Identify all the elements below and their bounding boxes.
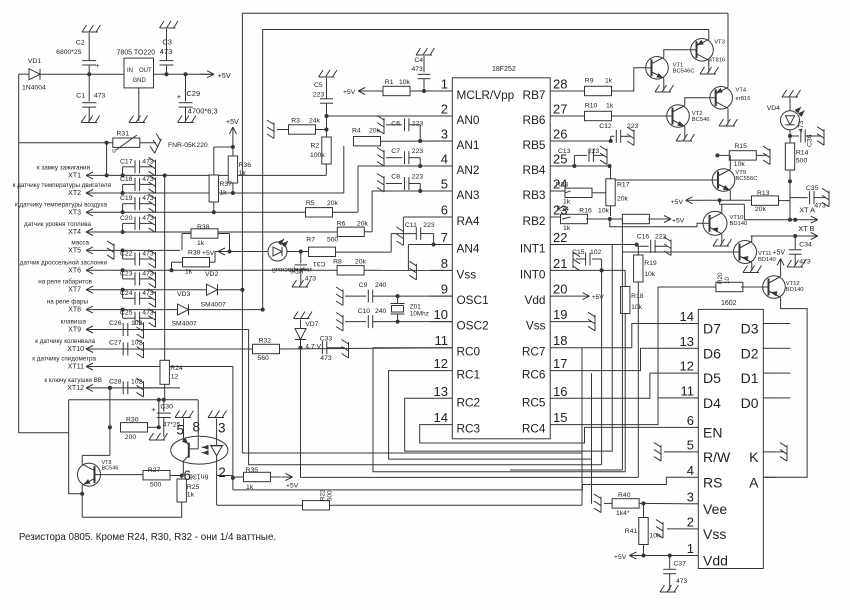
capacitor C28 [109,378,143,394]
wire XT12 node down [108,388,112,456]
svg-text:XT1: XT1 [68,172,81,179]
node XT8 label [47,299,89,314]
terminal XT8 arrow [86,306,103,313]
+5V arrow at VD6 row [202,248,229,257]
svg-text:223: 223 [412,174,424,181]
wire RA4 row [403,217,429,230]
terminal XT10 arrow [86,346,103,353]
LCD D0 stub [776,397,790,399]
wire XT11 row [103,366,115,368]
svg-text:1k: 1k [220,190,228,197]
transistor VT1 [646,57,695,80]
wire R31 to ground [139,142,156,144]
wire R38 right to +5V node [218,234,230,252]
svg-text:223: 223 [412,148,424,155]
svg-text:XT6: XT6 [68,267,81,274]
wire +5V node to VD6 [228,250,269,254]
+5V arrow at R16 [664,216,685,225]
wire R34 node to VT10 base [610,219,703,227]
svg-text:20k: 20k [617,196,629,203]
capacitor C20 [120,215,154,230]
svg-text:K: K [749,449,759,465]
ground at 7805 GND pin [129,88,148,123]
diode VD3 [177,284,226,308]
wire VT2 emitter to ground [684,127,686,140]
wire INT0 riser to bundle [601,270,603,464]
+5V arrow at R1 [343,88,383,97]
svg-text:R13: R13 [757,190,770,197]
pin 25 RB4 [523,152,571,178]
svg-text:RS: RS [703,474,722,490]
svg-text:R7: R7 [306,237,315,244]
svg-text:C29: C29 [186,89,200,98]
wire VD6 to R7 node [287,250,310,254]
terminal XT2 arrow [86,190,103,197]
resistor R33 [556,182,606,206]
terminal XT A arrow [799,206,818,224]
svg-text:240: 240 [375,308,387,315]
svg-text:5: 5 [687,437,694,452]
svg-text:20k: 20k [327,200,339,207]
wire R10 to VT2 base [612,115,668,117]
wire XT7 row to VD3 [180,289,207,291]
svg-text:200: 200 [125,434,137,441]
wire VT9 collector [717,155,730,169]
wire R38 left [182,234,191,251]
label VD2 [205,271,218,278]
svg-text:R32: R32 [259,338,272,345]
wire opto pin8 drop [197,400,199,437]
node XT12 label [44,377,102,392]
svg-text:XT11: XT11 [68,364,84,371]
LED VD6 [268,239,288,261]
pin 1 MCLR/Vpp [430,77,515,103]
capacitor C24 [120,290,154,305]
wire bundle link y470 [510,469,622,471]
resistor R8 [333,259,366,276]
svg-text:XT3: XT3 [68,209,81,216]
ground at LCD K [780,443,787,462]
svg-text:C24: C24 [120,290,133,297]
svg-text:R31: R31 [117,130,130,137]
svg-text:473: 473 [412,66,424,73]
transistor VT10 [703,211,747,235]
svg-text:C19: C19 [120,195,133,202]
svg-text:масса: масса [71,239,89,246]
border wire inner loop [263,30,709,310]
svg-text:2: 2 [441,102,448,117]
svg-text:R36: R36 [239,162,252,169]
wire C25 branch [121,308,135,319]
svg-text:R15: R15 [734,143,747,150]
svg-text:R18: R18 [631,293,644,300]
svg-text:RB3: RB3 [523,188,546,202]
optocoupler pin 5 [176,419,184,442]
svg-text:RC3: RC3 [457,422,481,436]
wire RC5 to D5 [571,373,685,398]
svg-text:FNR-05K220: FNR-05K220 [168,142,208,149]
optocoupler pin 6 [183,461,191,483]
svg-text:6800*25: 6800*25 [56,49,82,56]
ground at R31 [148,134,208,154]
svg-text:XT4: XT4 [68,229,81,236]
LCD pin K [749,449,776,465]
wire C23 branch [121,268,135,279]
svg-text:на реле габаритов: на реле габаритов [38,278,92,286]
wire VT11 base feed [622,251,733,253]
svg-text:20k: 20k [355,259,367,266]
svg-text:6n136: 6n136 [189,473,209,480]
LCD pin 3 Vee [684,489,727,517]
svg-text:26: 26 [553,127,567,142]
wire XT4 row [103,231,181,233]
svg-text:R22: R22 [320,489,327,501]
wire riser x582 [582,348,592,505]
svg-text:AN4: AN4 [457,242,480,256]
wire R36 to XT2 row [232,183,234,193]
svg-text:500: 500 [327,237,339,244]
wire C17 to ground [140,166,152,168]
svg-text:C9: C9 [359,282,368,289]
svg-text:XT A: XT A [799,206,815,215]
svg-text:4: 4 [687,463,694,478]
capacitor C37 [663,556,687,591]
ground at C18 [149,175,156,194]
svg-text:+5V: +5V [592,294,605,301]
pin 11 RC0 [430,333,481,359]
svg-text:AN1: AN1 [457,138,480,152]
node XT6 label [20,258,108,274]
pin 5 AN3 [430,177,480,203]
svg-text:R2: R2 [311,143,320,150]
zener diode VD7 [295,320,322,351]
svg-text:к ключу катушки ВВ: к ключу катушки ВВ [44,377,102,384]
svg-text:R14: R14 [796,150,809,157]
resistor R10 [585,103,614,121]
ground at C33 [342,340,349,359]
ground at C24 [149,289,156,308]
node XT9 label [61,319,87,334]
wire C27 to ground [128,348,140,350]
svg-text:R3: R3 [291,118,300,125]
svg-text:VT3: VT3 [714,40,725,46]
svg-text:+5V: +5V [226,119,239,126]
svg-text:XT2: XT2 [68,190,81,197]
pin 10 OSC2 [430,307,489,333]
svg-text:MCLR/Vpp: MCLR/Vpp [457,88,515,102]
svg-text:BD140: BD140 [758,257,776,263]
wire VD1 to 7805 IN [40,72,124,76]
optocoupler inner transistor [182,437,198,461]
svg-text:клавиша: клавиша [61,319,87,326]
transistor VT3 [691,39,725,64]
svg-text:3: 3 [218,421,226,436]
node XT11 label [32,356,96,371]
ground below C31 [292,280,311,287]
svg-text:VD4: VD4 [767,105,780,112]
svg-text:AN0: AN0 [457,113,480,127]
wire bundle link y453 [242,452,582,454]
capacitor C17 [120,158,154,173]
LED VD4 [767,98,805,130]
node XT1 label [37,164,90,179]
resistor R25 [177,476,199,503]
wire C23 to ground [140,278,152,280]
svg-text:D1: D1 [741,370,759,386]
svg-text:1: 1 [441,77,448,92]
wire RC4 to D4 [571,398,685,425]
svg-text:RB7: RB7 [523,88,546,102]
svg-text:RB2: RB2 [523,214,546,228]
ground at opto pin3 [208,411,227,418]
wire C22 to ground [140,258,152,260]
wire C18 to ground [140,183,152,185]
svg-text:RC2: RC2 [457,395,481,409]
svg-text:7805 TO220: 7805 TO220 [117,50,156,57]
svg-text:473: 473 [160,47,173,56]
svg-text:R8: R8 [333,259,342,266]
svg-text:IN: IN [127,68,133,74]
svg-text:D2: D2 [741,345,759,361]
wire INT0 row [571,268,626,272]
svg-text:C6: C6 [391,121,400,128]
capacitor C35 [790,185,826,210]
wire XT5 row [103,249,181,251]
resistor R6 [337,221,369,237]
svg-text:11: 11 [435,333,449,348]
node XT5 label [68,239,89,254]
svg-text:R30: R30 [126,417,139,424]
terminal XT7 arrow [86,286,103,293]
svg-text:100k: 100k [310,152,325,159]
LCD pin 13 D6 [680,334,722,362]
wire RS/W ground [664,451,684,453]
svg-text:XT8: XT8 [68,307,81,314]
ground at LCD Vss [656,520,663,539]
wire VT10 emitter to +5V [720,200,722,212]
pin 15 RC4 [522,410,571,436]
ground at C19 [149,194,156,213]
resistor R22 [303,489,334,510]
border wire outer loop [242,13,728,453]
wire RC2 loop [405,245,613,452]
svg-text:C30: C30 [160,404,173,411]
svg-text:R38: R38 [197,224,210,231]
capacitor C18 [120,176,154,191]
svg-text:R1: R1 [385,79,394,86]
wire bundle link y477 [301,476,639,478]
svg-text:INT0: INT0 [520,267,546,281]
svg-text:R25: R25 [187,484,200,491]
terminal XT B arrow [798,224,818,240]
LCD pin 1 Vdd [684,541,728,569]
svg-text:102: 102 [590,249,602,256]
svg-text:C26: C26 [109,320,122,327]
LCD pin D0 [741,395,777,411]
svg-text:Vss: Vss [526,319,546,333]
svg-text:102: 102 [131,320,143,327]
capacitor C23 [120,270,154,285]
svg-text:+5V: +5V [218,71,231,80]
svg-text:473: 473 [320,355,332,362]
wire R37 to XT3 row [213,202,215,213]
optocoupler pin 3 [217,419,226,439]
ground at C10 [336,313,343,332]
wire C22 branch [121,248,135,259]
wire R22 line [217,504,582,506]
capacitor C19 [120,195,154,210]
svg-text:13: 13 [434,384,448,399]
svg-text:4700*6,3: 4700*6,3 [188,107,218,116]
svg-text:INT1: INT1 [520,242,546,256]
svg-text:R37: R37 [220,181,233,188]
crystal Z01 [391,296,429,322]
svg-text:RC0: RC0 [457,345,481,359]
resistor R3 [289,118,321,135]
terminal XT6 arrow [86,267,103,274]
svg-text:C1: C1 [76,93,85,100]
LCD pin D2 [741,345,777,361]
svg-text:2: 2 [687,514,694,529]
wire VT2 collector to VT4 base [685,98,710,106]
transistor VT11 [734,241,776,264]
capacitor C31 [295,252,326,286]
wire RC3 to EN [420,425,685,443]
svg-text:1602: 1602 [721,300,737,307]
wire C19 branch [121,204,135,215]
ground at pin8 Vss [409,261,416,280]
capacitor C22 [120,251,154,266]
capacitor C1 [76,74,105,121]
capacitor C16 [637,234,668,253]
wire R5 right to AN2 riser [333,211,359,213]
svg-text:датчик уровня топлива: датчик уровня топлива [24,221,91,228]
svg-text:5: 5 [176,423,184,438]
svg-text:C2: C2 [76,40,85,47]
LCD display 1602 body [698,300,763,569]
svg-text:RC4: RC4 [522,422,546,436]
svg-text:1k: 1k [563,199,571,206]
wire XT9 row [103,329,181,331]
svg-text:C31: C31 [313,260,326,267]
resistor R40 [612,492,639,517]
resistor R35 [233,467,281,491]
svg-text:SM4007: SM4007 [172,321,198,328]
optocoupler pin 8 [192,420,200,435]
resistor R7 [306,237,338,257]
resistor R1 [383,79,411,96]
svg-text:10: 10 [724,276,731,284]
wire XT8 row to VD5 [177,309,179,311]
node XT10 label [35,338,95,353]
wire VT9 emitter to +5V line [718,191,731,203]
svg-text:10Mhz: 10Mhz [410,311,429,318]
svg-text:RC6: RC6 [522,368,546,382]
resistor R13 [752,190,779,213]
wire C20 branch [121,223,135,234]
svg-text:Z01: Z01 [410,304,421,311]
wire VD7 node riser [300,348,302,478]
svg-text:VD7: VD7 [305,321,318,328]
svg-text:10k: 10k [399,79,411,86]
LCD K to ground [776,451,784,453]
wire Vss to ground [667,528,684,530]
LCD D1 stub [776,372,790,374]
svg-text:8: 8 [441,256,448,271]
svg-text:R/W: R/W [703,449,731,465]
resistor R4 [352,128,381,146]
pin 8 Vss [430,256,477,282]
svg-text:10: 10 [434,307,448,322]
capacitor C9 [345,282,452,303]
svg-text:BD140: BD140 [730,221,748,227]
wire Vss pin19 to ground [571,321,593,323]
capacitor C8 [386,174,423,194]
wire AN0 node [325,103,453,138]
svg-text:500: 500 [327,490,334,501]
wire AN2 row [358,166,452,212]
LCD pin 14 D7 [680,309,722,337]
wire INT1 row [571,243,639,247]
transistor VT4 [710,87,751,110]
pin 6 RA4 [430,203,480,229]
wire RB7 to R9 [571,90,585,92]
wire R32 to RC0 row [280,346,453,350]
capacitor C29 electrolytic [177,74,218,121]
svg-text:20: 20 [553,282,567,297]
ground at C28 [137,378,144,397]
voltage regulator U2 7805 [117,50,156,88]
ground below C34 [787,260,806,267]
svg-text:560: 560 [258,355,270,362]
capacitor C27 [109,340,143,356]
svg-text:7: 7 [441,230,448,245]
svg-text:223: 223 [412,121,424,128]
wire VT12 emitter to +5V [780,270,782,277]
optocoupler pin 2 [217,462,226,505]
diode VD5 [172,304,198,327]
svg-text:R41: R41 [625,528,638,535]
ground at C20 [149,214,156,233]
wire C19 to ground [140,203,152,205]
wire RC1 loop [389,371,592,460]
svg-text:+5V: +5V [772,250,785,257]
+5V arrow at R35 [282,474,299,490]
wire XT6 row [103,269,181,271]
wire R15 left [715,153,729,157]
ground above VD4 [782,90,801,97]
wire C20 to ground [140,222,152,224]
ground below C37 [660,585,679,592]
wire riser to R20 [657,287,659,425]
wire input from VD1 anode and left rail [19,74,69,433]
ground at C12 [627,127,634,146]
svg-text:D0: D0 [741,395,759,411]
ground at R40 [594,494,612,512]
pin 13 RC2 [430,384,481,410]
svg-text:Резистора 0805. Кроме R24, R30: Резистора 0805. Кроме R24, R30, R32 - он… [19,532,276,543]
wire R40 to Vee [639,501,684,505]
svg-text:C4: C4 [414,57,423,64]
svg-text:OSC1: OSC1 [457,293,489,307]
+5V feed line [671,199,754,206]
resistor R39 [183,250,210,276]
wire VT12 collector to LCD A [763,298,807,478]
svg-text:18: 18 [553,333,567,348]
svg-text:12: 12 [171,374,179,381]
pin 4 AN2 [430,152,480,178]
diode VD1 [22,58,46,92]
